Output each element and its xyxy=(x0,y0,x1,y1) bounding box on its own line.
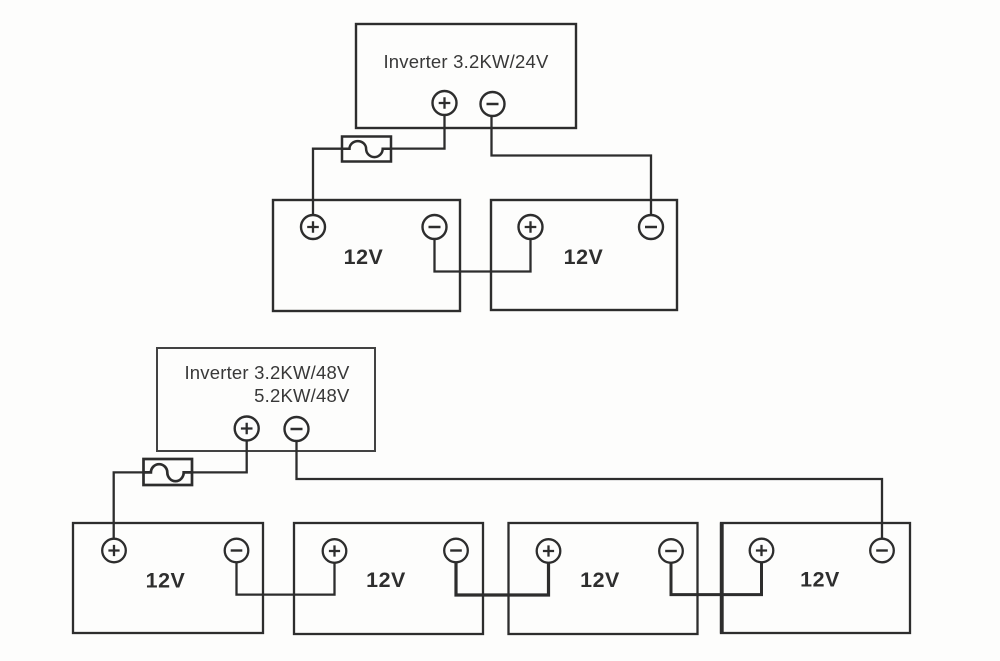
svg-text:Inverter 3.2KW/24V: Inverter 3.2KW/24V xyxy=(383,51,548,72)
battery BTD box xyxy=(721,523,910,633)
fuse F1 xyxy=(342,137,391,162)
svg-text:Inverter 3.2KW/48V: Inverter 3.2KW/48V xyxy=(184,362,349,383)
terminal BT2 - xyxy=(639,215,663,239)
wire fuse F1 to battery BT1 + xyxy=(313,149,342,216)
svg-text:12V: 12V xyxy=(366,568,406,592)
terminal BTA + xyxy=(102,539,126,563)
wire BTC - to BTD + (thick) xyxy=(671,562,762,595)
battery BTB box xyxy=(294,523,483,634)
terminal BTB + xyxy=(323,539,347,563)
battery BTC box xyxy=(509,523,698,634)
wire U1 - terminal to battery BT2 - xyxy=(492,116,652,216)
terminal U2 + xyxy=(235,417,259,441)
battery BTD thick left edge xyxy=(720,523,724,633)
svg-text:12V: 12V xyxy=(580,568,620,592)
terminal U1 - xyxy=(481,92,505,116)
inverter U2 box xyxy=(157,348,375,451)
wire BT1 - to BT2 + xyxy=(435,239,531,272)
terminal BT2 + xyxy=(519,215,543,239)
svg-text:5.2KW/48V: 5.2KW/48V xyxy=(254,385,350,406)
battery BT1 box xyxy=(273,200,460,311)
terminal U1 + xyxy=(433,91,457,115)
battery BTA box xyxy=(73,523,263,633)
wire U2 + terminal to fuse F2 xyxy=(192,441,247,473)
terminal BTA - xyxy=(225,539,249,563)
terminal BTD + xyxy=(750,539,774,563)
inverter U1 box xyxy=(356,24,576,128)
terminal BTC + xyxy=(537,539,561,563)
wire BTA - to BTB + xyxy=(237,562,335,595)
terminal U2 - xyxy=(285,417,309,441)
wire BTB - to BTC + (thick) xyxy=(456,562,549,595)
terminal BT1 + xyxy=(301,215,325,239)
terminal BTD - xyxy=(870,539,894,563)
terminal BTB - xyxy=(444,539,468,563)
fuse F2 xyxy=(144,459,193,485)
svg-text:12V: 12V xyxy=(146,569,186,593)
terminal BT1 - xyxy=(423,215,447,239)
svg-text:12V: 12V xyxy=(564,245,604,269)
terminal BTC - xyxy=(659,539,683,563)
wire U2 - terminal to battery BTD - xyxy=(297,441,883,539)
wire fuse F2 to battery BTA + xyxy=(114,472,144,539)
battery BT2 box xyxy=(491,200,677,310)
svg-text:12V: 12V xyxy=(344,245,384,269)
wire U1 + terminal to fuse F1 xyxy=(391,115,445,149)
svg-text:12V: 12V xyxy=(800,568,840,592)
